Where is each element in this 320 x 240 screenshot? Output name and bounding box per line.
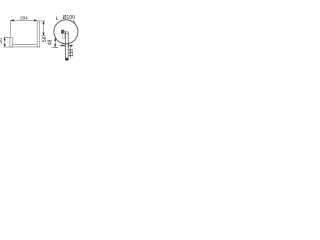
tick B bottom [41, 35, 45, 37]
tick top right [40, 20, 45, 22]
vertical dim line B [43, 21, 45, 36]
ext ticks pin width [64, 44, 66, 47]
width dim lines [59, 45, 62, 47]
svg-text:48: 48 [47, 40, 53, 46]
extension line [9, 20, 11, 37]
arrow dimA left [10, 19, 13, 21]
arm end block [61, 30, 64, 33]
arrow pin width left [62, 45, 65, 47]
arrow dimB up [42, 21, 44, 24]
svg-text:204: 204 [20, 15, 28, 20]
dim line C [4, 37, 6, 47]
dimension line 204 [10, 19, 37, 21]
arm [12, 43, 37, 45]
ball end of pin [65, 58, 69, 61]
svg-text:30: 30 [0, 38, 4, 44]
arrow dimD down [54, 44, 56, 47]
tick near circle top-left [57, 17, 59, 20]
dim line D (circle area) [54, 38, 56, 48]
pin [64, 32, 66, 59]
tick D bottom [52, 47, 58, 49]
wall plate [37, 21, 40, 47]
ticks dim C [3, 36, 10, 38]
svg-text:Ø100: Ø100 [63, 15, 75, 21]
arrow dimD up [54, 38, 56, 41]
arrow pin width right [69, 45, 72, 47]
pin top cap [65, 32, 68, 34]
connector to pin [64, 31, 65, 33]
leader from label [73, 20, 75, 24]
svg-text:110: 110 [69, 49, 75, 57]
arrow dimB down [42, 33, 44, 36]
arrow dimC up [4, 37, 6, 40]
post (hook end) [10, 37, 13, 47]
dim line E right of pin [70, 47, 72, 59]
neck below block [62, 33, 64, 38]
arrow dimC down [4, 44, 6, 47]
arrow dimA right [34, 19, 37, 21]
